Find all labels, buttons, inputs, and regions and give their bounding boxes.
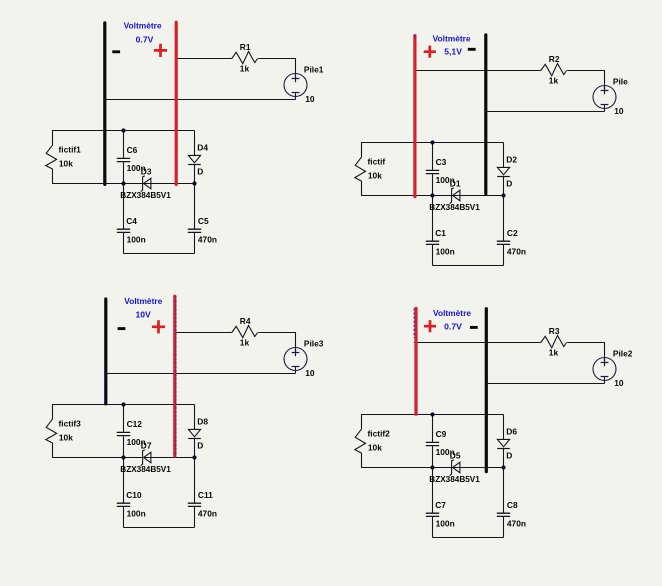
junction middle/C10 (Q3) <box>121 455 125 459</box>
capacitor C11 (Q3) <box>188 503 201 506</box>
wire C2 bottom lead (Q2) <box>503 245 505 266</box>
svg-text:1k: 1k <box>240 337 250 347</box>
wire D4 top lead (Q1) <box>194 131 196 156</box>
selection dash highlight on probe (Q3) <box>175 296 177 456</box>
wire C6 top lead (Q1) <box>123 131 125 158</box>
svg-text:10: 10 <box>614 106 624 116</box>
wire C12 top lead (Q3) <box>123 405 125 432</box>
voltmeter red probe (Q3) <box>173 296 176 456</box>
svg-text:10k: 10k <box>368 443 382 453</box>
Pile minus terminal mark (Q2) <box>601 104 609 106</box>
capacitor C1 (Q2) <box>426 241 439 244</box>
svg-text:C4: C4 <box>126 216 137 226</box>
diode D6 cathode bar (Q4) <box>497 448 510 450</box>
svg-text:D4: D4 <box>197 142 208 152</box>
Pile1 plus terminal mark (Q1) <box>292 75 300 83</box>
svg-text:D6: D6 <box>506 426 517 436</box>
svg-text:C8: C8 <box>507 500 518 510</box>
junction middle/C4 (Q1) <box>121 181 125 185</box>
svg-text:BZX384B5V1: BZX384B5V1 <box>120 465 171 474</box>
svg-text:0.7V: 0.7V <box>136 34 154 44</box>
svg-text:R1: R1 <box>240 42 251 52</box>
svg-text:10V: 10V <box>135 310 151 320</box>
svg-text:C9: C9 <box>436 429 447 439</box>
wire C12 bottom lead (Q3) <box>123 436 125 457</box>
svg-text:10k: 10k <box>368 171 382 181</box>
wire C5 top lead (Q1) <box>194 184 196 229</box>
Pile2 plus terminal mark (Q4) <box>601 359 609 367</box>
wire down to Pile + terminal (Q2) <box>604 70 606 91</box>
svg-text:BZX384B5V1: BZX384B5V1 <box>429 203 480 212</box>
zener D1 cathode bar (Q2) <box>450 188 454 204</box>
wire C6 bottom lead (Q1) <box>123 162 125 183</box>
wire D8 bottom lead (Q3) <box>194 439 196 458</box>
junction box-top/C3 (Q2) <box>430 140 434 144</box>
wire voltmeter+ to R1 (Q1) <box>176 58 232 60</box>
svg-text:D: D <box>506 178 512 188</box>
svg-text:1k: 1k <box>240 63 250 73</box>
wire Pile - to voltmeter black probe (Q2) <box>485 111 604 113</box>
wire box top node (Q2) <box>362 142 504 144</box>
Pile plus terminal mark (Q2) <box>601 87 609 95</box>
svg-text:fictif3: fictif3 <box>59 419 82 429</box>
svg-text:C3: C3 <box>436 157 447 167</box>
junction middle/C2 (Q2) <box>501 193 505 197</box>
selection dash highlight on probe (Q2) <box>413 35 415 38</box>
svg-text:5,1V: 5,1V <box>444 47 462 57</box>
junction middle/C1 (Q2) <box>430 193 434 197</box>
selection dash highlight on probe (Q3) <box>104 371 106 404</box>
wire C8 bottom lead (Q4) <box>503 517 505 538</box>
voltmeter red probe (Q2) <box>413 36 416 197</box>
resistor R1 (Q1) <box>232 52 258 64</box>
wire C1 bottom lead (Q2) <box>432 245 434 266</box>
wire Pile1 - terminal stub (Q1) <box>295 93 297 100</box>
svg-text:C6: C6 <box>127 145 138 155</box>
wire fictif3 bottom lead (Q3) <box>52 443 54 458</box>
svg-text:10: 10 <box>305 368 315 378</box>
wire D4 bottom lead (Q1) <box>194 165 196 184</box>
wire fictif3 top lead (Q3) <box>52 404 54 419</box>
wire C9 bottom lead (Q4) <box>432 446 434 467</box>
diode D6 (Q4) <box>497 439 509 446</box>
wire C2 top lead (Q2) <box>503 196 505 241</box>
zener diode D3 (Q1) <box>144 178 151 189</box>
voltmeter black probe (Q2) <box>484 35 487 194</box>
svg-text:1k: 1k <box>549 75 559 85</box>
wire R2 to Pile (Q2) <box>567 70 604 72</box>
svg-text:D1: D1 <box>450 178 461 188</box>
capacitor C6 (Q1) <box>117 158 130 161</box>
wire Pile3 - terminal stub (Q3) <box>295 367 297 374</box>
voltmeter minus polarity mark (Q4) <box>470 326 478 329</box>
Pile2 minus terminal mark (Q4) <box>601 376 609 378</box>
wire D2 bottom lead (Q2) <box>503 177 505 196</box>
svg-text:Voltmètre: Voltmètre <box>124 21 162 31</box>
wire down to Pile2 + terminal (Q4) <box>604 342 606 363</box>
svg-text:D: D <box>197 166 203 176</box>
capacitor C3 (Q2) <box>426 170 439 173</box>
svg-text:Pile: Pile <box>613 76 628 86</box>
svg-text:C7: C7 <box>435 500 446 510</box>
voltmeter plus polarity mark (Q1) <box>154 44 167 57</box>
svg-text:1k: 1k <box>549 347 559 357</box>
voltmeter minus polarity mark (Q3) <box>118 327 126 330</box>
svg-text:100n: 100n <box>436 247 455 257</box>
svg-text:100n: 100n <box>127 235 146 245</box>
svg-text:10k: 10k <box>59 433 73 443</box>
wire C7 bottom lead (Q4) <box>432 517 434 538</box>
battery source Pile1 (Q1) <box>284 74 307 97</box>
junction box-top/C12 (Q3) <box>121 402 125 406</box>
wire bottom node (Q1) <box>124 253 195 255</box>
svg-text:Pile2: Pile2 <box>613 348 633 358</box>
wire fictif2 top lead (Q4) <box>361 414 363 429</box>
svg-text:D8: D8 <box>197 416 208 426</box>
wire C8 top lead (Q4) <box>503 468 505 513</box>
resistor fictif2 (Q4) <box>355 429 366 453</box>
battery source Pile (Q2) <box>593 86 616 109</box>
wire C7 top lead (Q4) <box>432 468 434 513</box>
voltmeter minus polarity mark (Q1) <box>112 50 120 53</box>
junction middle/C11 (Q3) <box>192 455 196 459</box>
wire D2 top lead (Q2) <box>503 143 505 168</box>
wire C1 top lead (Q2) <box>432 196 434 241</box>
junction middle/C8 (Q4) <box>501 465 505 469</box>
voltmeter red probe (Q4) <box>414 308 417 414</box>
svg-text:470n: 470n <box>507 247 526 257</box>
Pile3 plus terminal mark (Q3) <box>292 349 300 357</box>
wire fictif top lead (Q2) <box>361 142 363 157</box>
junction box-top/C9 (Q4) <box>430 412 434 416</box>
wire R4 to Pile3 (Q3) <box>258 332 295 334</box>
wire box top node (Q1) <box>53 130 195 132</box>
wire box top node (Q4) <box>362 414 504 416</box>
svg-text:470n: 470n <box>507 519 526 529</box>
resistor fictif3 (Q3) <box>46 419 57 443</box>
wire bottom node (Q4) <box>433 537 504 539</box>
junction middle/C7 (Q4) <box>430 465 434 469</box>
svg-text:C2: C2 <box>507 228 518 238</box>
svg-text:Voltmètre: Voltmètre <box>433 33 471 43</box>
junction middle/C5 (Q1) <box>192 181 196 185</box>
wire middle node (Q2) <box>362 195 504 197</box>
wire middle node (Q4) <box>362 467 504 469</box>
wire C11 top lead (Q3) <box>194 458 196 503</box>
voltmeter black probe (Q1) <box>103 23 106 185</box>
wire D6 top lead (Q4) <box>503 415 505 440</box>
zener D7 cathode bar (Q3) <box>141 450 145 466</box>
capacitor C4 (Q1) <box>117 229 130 232</box>
svg-text:BZX384B5V1: BZX384B5V1 <box>429 475 480 484</box>
svg-text:C10: C10 <box>126 490 142 500</box>
capacitor C10 (Q3) <box>117 503 130 506</box>
svg-text:C5: C5 <box>198 216 209 226</box>
svg-text:100n: 100n <box>436 519 455 529</box>
svg-text:C11: C11 <box>198 490 213 500</box>
wire fictif1 bottom lead (Q1) <box>52 169 54 184</box>
voltmeter black probe (Q3) <box>104 299 107 404</box>
svg-text:Pile1: Pile1 <box>304 64 324 74</box>
zener diode D7 (Q3) <box>144 452 151 463</box>
wire voltmeter+ to R3 (Q4) <box>414 342 541 344</box>
svg-text:D: D <box>506 450 512 460</box>
capacitor C12 (Q3) <box>117 432 130 435</box>
zener diode D5 (Q4) <box>453 462 460 473</box>
Pile1 minus terminal mark (Q1) <box>292 92 300 94</box>
svg-text:Voltmètre: Voltmètre <box>124 296 162 306</box>
svg-text:C1: C1 <box>435 228 446 238</box>
svg-text:D2: D2 <box>506 154 517 164</box>
wire Pile3 - to voltmeter black probe (Q3) <box>105 373 296 375</box>
svg-text:Pile3: Pile3 <box>304 338 324 348</box>
voltmeter plus polarity mark (Q4) <box>424 320 436 332</box>
diode D4 cathode bar (Q1) <box>188 164 201 166</box>
resistor R3 (Q4) <box>541 336 567 348</box>
wire voltmeter+ to R4 (Q3) <box>176 332 232 334</box>
wire D8 top lead (Q3) <box>194 405 196 430</box>
svg-text:R2: R2 <box>549 54 560 64</box>
wire Pile1 - to voltmeter black probe (Q1) <box>105 99 296 101</box>
resistor R2 (Q2) <box>541 64 567 76</box>
svg-text:100n: 100n <box>127 509 146 519</box>
wire fictif1 top lead (Q1) <box>52 130 54 145</box>
diode D8 (Q3) <box>188 429 200 436</box>
svg-text:0.7V: 0.7V <box>444 321 462 331</box>
svg-text:D3: D3 <box>141 166 152 176</box>
diode D2 (Q2) <box>497 167 509 174</box>
voltmeter plus polarity mark (Q3) <box>152 320 165 333</box>
wire fictif bottom lead (Q2) <box>361 181 363 196</box>
capacitor C8 (Q4) <box>497 513 510 516</box>
resistor fictif1 (Q1) <box>46 145 57 169</box>
svg-text:D5: D5 <box>450 450 461 460</box>
wire C5 bottom lead (Q1) <box>194 233 196 254</box>
zener diode D1 (Q2) <box>453 190 460 201</box>
svg-text:Voltmètre: Voltmètre <box>433 308 471 318</box>
wire bottom node (Q2) <box>433 265 504 267</box>
voltmeter plus polarity mark (Q2) <box>424 46 436 58</box>
svg-text:470n: 470n <box>198 235 217 245</box>
wire D6 bottom lead (Q4) <box>503 449 505 468</box>
svg-text:D7: D7 <box>141 440 152 450</box>
svg-text:fictif1: fictif1 <box>59 145 82 155</box>
diode D2 cathode bar (Q2) <box>497 176 510 178</box>
wire box top node (Q3) <box>53 404 195 406</box>
junction box-top/C6 (Q1) <box>121 128 125 132</box>
zener D5 cathode bar (Q4) <box>450 460 454 476</box>
voltmeter minus polarity mark (Q2) <box>468 48 476 51</box>
wire C10 top lead (Q3) <box>123 458 125 503</box>
wire middle node (Q1) <box>53 183 195 185</box>
svg-text:BZX384B5V1: BZX384B5V1 <box>120 191 171 200</box>
svg-text:R3: R3 <box>549 326 560 336</box>
svg-text:10: 10 <box>305 94 315 104</box>
resistor fictif (Q2) <box>355 157 366 181</box>
wire down to Pile3 + terminal (Q3) <box>295 332 297 353</box>
voltmeter red probe (Q1) <box>175 22 178 184</box>
svg-text:R4: R4 <box>240 316 251 326</box>
svg-text:10k: 10k <box>59 159 73 169</box>
wire R1 to Pile1 (Q1) <box>258 58 295 60</box>
wire R3 to Pile2 (Q4) <box>567 342 604 344</box>
svg-text:fictif2: fictif2 <box>368 429 391 439</box>
capacitor C9 (Q4) <box>426 442 439 445</box>
wire down to Pile1 + terminal (Q1) <box>295 58 297 79</box>
wire fictif2 bottom lead (Q4) <box>361 453 363 468</box>
wire Pile2 - to voltmeter black probe (Q4) <box>485 383 604 385</box>
svg-text:C12: C12 <box>127 419 143 429</box>
wire voltmeter+ to R2 (Q2) <box>414 70 541 72</box>
battery source Pile3 (Q3) <box>284 348 307 371</box>
svg-text:fictif: fictif <box>368 157 386 167</box>
battery source Pile2 (Q4) <box>593 358 616 381</box>
wire C3 bottom lead (Q2) <box>432 174 434 195</box>
capacitor C5 (Q1) <box>188 229 201 232</box>
capacitor C2 (Q2) <box>497 241 510 244</box>
wire bottom node (Q3) <box>124 527 195 529</box>
wire C10 bottom lead (Q3) <box>123 507 125 528</box>
resistor R4 (Q3) <box>232 326 258 338</box>
capacitor C7 (Q4) <box>426 513 439 516</box>
wire C11 bottom lead (Q3) <box>194 507 196 528</box>
svg-text:D: D <box>197 440 203 450</box>
diode D4 (Q1) <box>188 155 200 162</box>
wire C9 top lead (Q4) <box>432 415 434 442</box>
svg-text:10: 10 <box>614 378 624 388</box>
wire Pile - terminal stub (Q2) <box>604 105 606 112</box>
Pile3 minus terminal mark (Q3) <box>292 366 300 368</box>
wire middle node (Q3) <box>53 457 195 459</box>
wire C4 bottom lead (Q1) <box>123 233 125 254</box>
wire Pile2 - terminal stub (Q4) <box>604 377 606 384</box>
wire C3 top lead (Q2) <box>432 143 434 170</box>
zener D3 cathode bar (Q1) <box>141 176 145 192</box>
svg-text:470n: 470n <box>198 509 217 519</box>
wire C4 top lead (Q1) <box>123 184 125 229</box>
diode D8 cathode bar (Q3) <box>188 438 201 440</box>
selection dash highlight on probe (Q4) <box>413 308 415 338</box>
voltmeter black probe (Q4) <box>485 309 488 472</box>
